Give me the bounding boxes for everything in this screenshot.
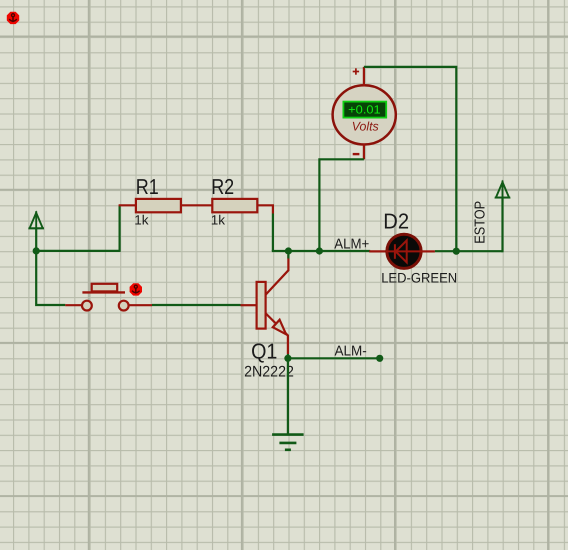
pushbutton cap	[92, 284, 118, 292]
svg-text:ESTOP: ESTOP	[472, 201, 488, 244]
transistor Q1 base bar	[257, 282, 266, 329]
resistor R2 pin right	[257, 205, 273, 213]
svg-text:1k: 1k	[134, 213, 149, 228]
transistor Q1 emitter arrow	[273, 320, 286, 335]
svg-text:ALM-: ALM-	[335, 343, 367, 359]
voltmeter body	[333, 85, 396, 144]
wire flag-left stem	[35, 228, 37, 251]
wire down to button row	[36, 251, 65, 305]
wire ESTOP riser	[501, 198, 503, 253]
resistor R1 pin left	[119, 204, 136, 206]
LED D2 pin right	[422, 250, 435, 252]
svg-text:D2: D2	[383, 209, 409, 234]
voltmeter minus marker	[353, 153, 360, 155]
wire between R1 and R2	[181, 204, 212, 206]
pushbutton contact bar	[82, 291, 125, 293]
voltmeter plus marker	[353, 68, 359, 74]
transistor Q1 collector	[266, 255, 289, 295]
wire to ground	[287, 358, 289, 434]
wire node line ALM+	[272, 250, 370, 252]
terminal flag ESTOP	[495, 181, 511, 198]
svg-text:+0.01: +0.01	[348, 103, 381, 117]
junction node right rail	[453, 248, 460, 255]
wire button to base	[152, 304, 241, 306]
pushbutton terminal left	[82, 301, 92, 311]
node ALM- end dot	[376, 355, 383, 362]
LED D2 pin left	[369, 250, 386, 252]
junction node meter minus	[316, 247, 323, 254]
voltmeter pin top	[363, 67, 365, 86]
pushbutton terminal right	[119, 301, 129, 311]
LED D2 body	[387, 234, 421, 268]
wire ALM-	[288, 357, 380, 359]
wire left riser up to R1	[118, 205, 120, 252]
svg-text:R1: R1	[136, 174, 159, 199]
voltmeter display	[343, 102, 386, 118]
transistor Q1 base pin	[241, 304, 257, 306]
wire collector stub	[287, 251, 289, 259]
svg-text:1k: 1k	[211, 213, 226, 228]
resistor R2	[212, 199, 257, 212]
terminal flag left	[28, 211, 44, 228]
wire left horizontal to riser	[36, 250, 119, 252]
wire descent from R2 to node line	[272, 214, 274, 252]
junction node left	[33, 247, 40, 254]
ground	[272, 435, 304, 450]
voltmeter pin bottom	[363, 144, 365, 159]
simulation marker (red) top-left	[7, 12, 19, 24]
svg-text:LED-GREEN: LED-GREEN	[381, 271, 457, 286]
svg-text:R2: R2	[211, 174, 234, 199]
pushbutton pin right	[129, 304, 152, 306]
LED D2 symbol	[386, 240, 422, 262]
junction node collector	[285, 247, 292, 254]
wire meter plus to right rail	[364, 67, 456, 251]
pushbutton pin left	[65, 304, 81, 306]
wire meter minus down to node line	[319, 159, 364, 251]
wire LED to right rail	[435, 250, 503, 252]
junction node emitter	[284, 355, 291, 362]
svg-text:Volts: Volts	[352, 120, 379, 134]
transistor Q1 emitter	[266, 313, 288, 354]
svg-text:2N2222: 2N2222	[244, 363, 294, 380]
wire emitter to ALM- node	[287, 354, 289, 362]
pushbutton actuator (red)	[130, 283, 142, 295]
svg-text:ALM+: ALM+	[334, 237, 369, 253]
svg-text:Q1: Q1	[251, 339, 277, 364]
resistor R1	[136, 199, 181, 212]
